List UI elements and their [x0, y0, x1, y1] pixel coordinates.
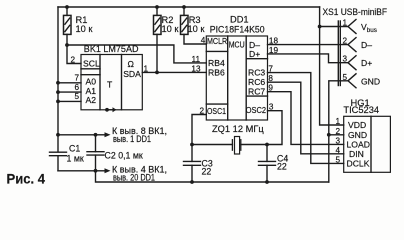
- wire left vertical bus: [57, 7, 59, 152]
- node junction A0: [56, 81, 60, 85]
- svg-text:RC7: RC7: [248, 87, 265, 97]
- svg-text:1: 1: [342, 19, 347, 28]
- wire D- pin18 to XS1 pin2: [268, 44, 349, 46]
- connector XS1 contact pin2: [348, 38, 356, 52]
- wire A2 stub: [58, 100, 81, 102]
- wire Vbus vertical to HG1 VDD: [320, 7, 344, 125]
- node junction A1: [56, 90, 60, 94]
- svg-text:5: 5: [342, 73, 347, 82]
- svg-text:Ω: Ω: [128, 59, 135, 69]
- wire XS1 GND pin5 down: [329, 81, 348, 182]
- wire C2 jog to ground rail: [96, 171, 329, 182]
- svg-text:9: 9: [268, 84, 273, 93]
- wire crystal row left: [192, 144, 232, 146]
- wire GND to HG1 pin2: [329, 134, 344, 136]
- svg-text:T: T: [107, 79, 113, 89]
- wire top rail: [58, 6, 320, 8]
- svg-text:3: 3: [335, 136, 340, 145]
- svg-text:1: 1: [335, 117, 340, 126]
- svg-text:PIC18F14K50: PIC18F14K50: [210, 24, 265, 34]
- svg-text:6: 6: [74, 83, 79, 92]
- capacitor C4: [259, 145, 276, 183]
- svg-text:2: 2: [342, 37, 347, 46]
- connector XS1 contact pin1: [348, 20, 356, 34]
- svg-text:1 мк: 1 мк: [67, 153, 84, 163]
- node junction A2: [56, 100, 60, 104]
- capacitor C1: [50, 152, 67, 171]
- svg-text:D+: D+: [361, 58, 372, 68]
- connector XS1 contact pin5: [348, 74, 356, 88]
- svg-text:4: 4: [201, 36, 206, 45]
- svg-text:C2 0,1 мк: C2 0,1 мк: [105, 151, 143, 161]
- svg-text:22: 22: [202, 167, 212, 177]
- svg-text:4: 4: [335, 146, 340, 155]
- svg-text:7: 7: [74, 74, 79, 83]
- svg-text:SCL: SCL: [83, 59, 100, 69]
- wire A0 stub: [58, 82, 81, 84]
- svg-text:выв. 20 DD1: выв. 20 DD1: [113, 172, 155, 182]
- node junction R1 top: [65, 5, 69, 9]
- svg-text:18: 18: [269, 37, 279, 46]
- wire SCL net to RB4 pin11: [67, 45, 206, 63]
- svg-text:19: 19: [269, 46, 279, 55]
- wire SCL to BK1 pin2: [67, 45, 81, 64]
- svg-text:1: 1: [144, 64, 149, 73]
- resistor R1: [64, 7, 72, 45]
- svg-text:2: 2: [335, 127, 340, 136]
- wire Vdd rail to C2: [58, 134, 96, 136]
- resistor R2: [154, 7, 162, 72]
- wire OSC1 pin2 to crystal: [192, 115, 206, 145]
- label C1: [67, 144, 289, 177]
- wire RC7 pin9 to HG1 LOAD: [268, 92, 344, 145]
- svg-text:TIC5234: TIC5234: [343, 105, 379, 115]
- svg-text:DCLK: DCLK: [347, 158, 370, 168]
- wire R3 to MCLR pin4: [184, 34, 206, 44]
- svg-text:OSC1: OSC1: [207, 106, 226, 116]
- connector XS1 contact pin3: [348, 56, 356, 70]
- svg-text:DD1: DD1: [230, 15, 249, 25]
- node junction Vbus branch: [318, 25, 322, 29]
- svg-text:SDA: SDA: [123, 69, 141, 79]
- svg-text:5: 5: [335, 155, 340, 164]
- node junction R1 bottom SCL net: [65, 43, 69, 47]
- svg-text:10 к: 10 к: [162, 24, 180, 34]
- arrow to pin8 BK1 pin1 DD1: [96, 132, 111, 137]
- wire D+ pin19 to XS1 pin3: [268, 54, 349, 63]
- svg-text:OSC2: OSC2: [246, 105, 266, 115]
- node junction C4 ground: [265, 180, 269, 184]
- svg-text:2: 2: [70, 56, 75, 65]
- svg-text:GND: GND: [361, 76, 380, 86]
- IC HG1 TIC5234 box: [344, 116, 391, 172]
- svg-text:GND: GND: [348, 130, 367, 140]
- IC DD1 PIC18F14K50 box: [206, 36, 267, 120]
- svg-text:C1: C1: [69, 144, 80, 154]
- connector XS1 body: [338, 21, 340, 86]
- wire OSC2 pin3 to crystal: [267, 111, 282, 145]
- svg-text:2: 2: [199, 107, 204, 116]
- wire Vbus branch to XS1 pin1: [320, 26, 348, 28]
- crystal ZQ1: [232, 137, 240, 155]
- svg-text:VDD: VDD: [348, 120, 366, 130]
- node junction C3 ground: [190, 180, 194, 184]
- svg-text:7: 7: [268, 65, 273, 74]
- IC BK1 LM75AD box: [81, 55, 142, 110]
- svg-text:8: 8: [268, 74, 273, 83]
- svg-text:D–: D–: [361, 40, 372, 50]
- svg-text:выв. 1 DD1: выв. 1 DD1: [113, 134, 151, 144]
- wire A1 stub: [58, 91, 81, 93]
- svg-text:MCU: MCU: [229, 39, 245, 49]
- capacitor C2: [87, 135, 104, 171]
- svg-text:13: 13: [191, 64, 201, 73]
- svg-text:XS1 USB-miniBF: XS1 USB-miniBF: [323, 7, 388, 17]
- svg-text:RC3: RC3: [248, 68, 265, 78]
- svg-text:22: 22: [277, 162, 287, 172]
- node junction Vdd rail: [56, 133, 60, 137]
- wire C1 bottom to C2 bottom: [58, 170, 96, 172]
- svg-text:3: 3: [269, 103, 274, 112]
- svg-text:3: 3: [342, 55, 347, 64]
- svg-text:DIN: DIN: [349, 149, 364, 159]
- node junction R2 bottom on SDA: [155, 71, 159, 75]
- svg-text:Рис. 4: Рис. 4: [7, 172, 46, 187]
- svg-text:10 к: 10 к: [188, 24, 206, 34]
- node junction C2 top: [94, 133, 98, 137]
- node junction C2 bottom: [94, 169, 98, 173]
- svg-text:10 к: 10 к: [76, 24, 94, 34]
- resistor R3: [181, 7, 207, 44]
- node junction crystal right C4: [265, 143, 269, 147]
- node junction GND HG1 pin2: [327, 133, 331, 137]
- wire SDA net BK1 pin1 to RB6 pin13: [142, 71, 206, 73]
- wire RC6 pin8 to HG1 DIN: [268, 82, 344, 154]
- svg-text:RB6: RB6: [208, 67, 225, 77]
- BK1 bottom edge sensor dot and arrow: [105, 107, 116, 112]
- node junction crystal left C3: [190, 143, 194, 147]
- svg-text:5: 5: [74, 92, 79, 101]
- svg-text:ZQ1 12 МГц: ZQ1 12 МГц: [212, 124, 264, 134]
- svg-text:MCLR: MCLR: [207, 36, 227, 46]
- svg-text:RC6: RC6: [248, 77, 265, 87]
- arrow to pin4 BK1 pin20 DD1: [96, 168, 111, 173]
- node junction R2 top: [155, 5, 159, 9]
- node junction R3 top: [182, 5, 186, 9]
- wire crystal row right: [241, 144, 267, 146]
- svg-text:A2: A2: [86, 95, 97, 105]
- svg-text:11: 11: [192, 55, 201, 64]
- capacitor C3: [184, 145, 201, 183]
- wire RC3 pin7 to HG1 DCLK: [268, 73, 344, 164]
- svg-text:Vbus: Vbus: [361, 22, 377, 34]
- label R1: [76, 7, 388, 134]
- svg-text:BK1 LM75AD: BK1 LM75AD: [84, 44, 139, 54]
- svg-text:D+: D+: [249, 49, 260, 59]
